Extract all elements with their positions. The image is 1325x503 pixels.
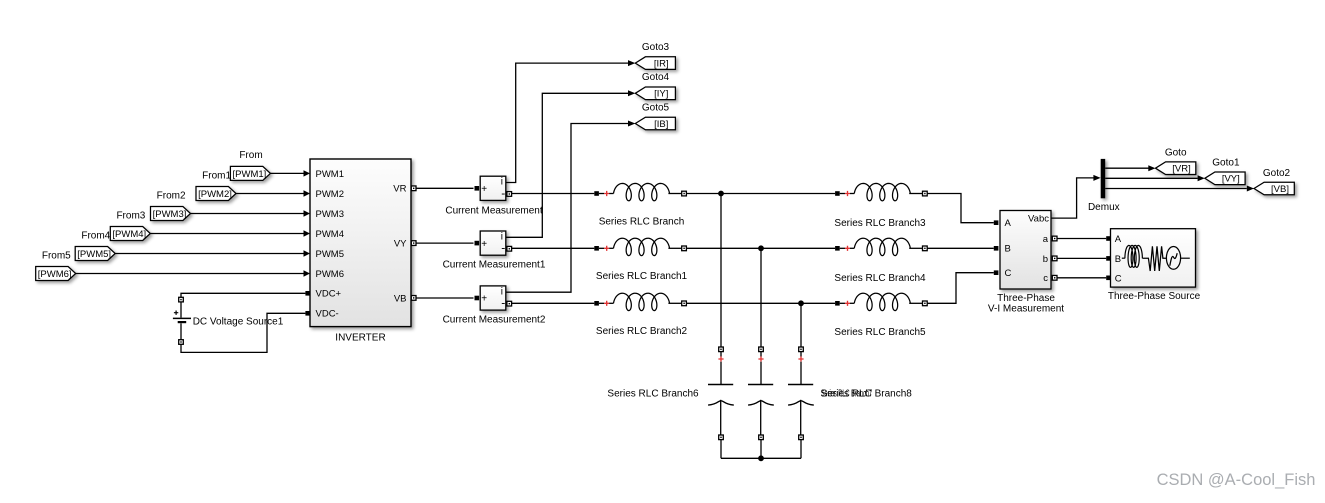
Goto tag [IY] (Goto4) bbox=[635, 87, 675, 100]
wire Current Measurement1 - output to Series RLC Branch1 bbox=[512, 247, 595, 249]
svg-text:Goto4: Goto4 bbox=[642, 72, 670, 83]
svg-text:From3: From3 bbox=[116, 210, 145, 221]
svg-text:From1: From1 bbox=[202, 170, 231, 181]
Current Measurement2 block bbox=[475, 286, 512, 310]
svg-text:Three-Phase: Three-Phase bbox=[997, 293, 1055, 304]
Series RLC Branch3 (inductor) bbox=[835, 183, 927, 200]
svg-text:[PWM2]: [PWM2] bbox=[198, 189, 232, 200]
Goto tag [VY] (Goto1) bbox=[1205, 172, 1245, 185]
svg-text:Vabc: Vabc bbox=[1028, 214, 1049, 225]
wire inverter output to Current Measurement2 bbox=[416, 297, 474, 299]
svg-text:VDC+: VDC+ bbox=[316, 289, 342, 300]
svg-text:A: A bbox=[1005, 218, 1012, 229]
svg-text:From4: From4 bbox=[81, 230, 110, 241]
svg-text:B: B bbox=[1115, 254, 1121, 265]
svg-text:Goto3: Goto3 bbox=[642, 42, 670, 53]
Series RLC Branch5 (inductor) bbox=[835, 293, 927, 310]
Three-Phase Source icon: AC source circle bbox=[1166, 247, 1180, 270]
wire Current Measurement i output to Goto3 bbox=[506, 63, 629, 182]
svg-text:Series RLC Branch5: Series RLC Branch5 bbox=[834, 327, 926, 338]
Demux block bbox=[1101, 159, 1106, 198]
wire Series RLC Branch3 to V-I input A bbox=[927, 194, 994, 223]
wire inverter output to Current Measurement1 bbox=[416, 242, 474, 244]
svg-text:Current Measurement1: Current Measurement1 bbox=[443, 260, 546, 271]
svg-text:c: c bbox=[1043, 273, 1048, 284]
wire V-I output to Three-Phase Source bbox=[1057, 238, 1106, 240]
svg-text:A: A bbox=[1115, 234, 1122, 245]
From tag [PWM4] bbox=[110, 227, 150, 241]
From tag [PWM2] bbox=[196, 187, 236, 201]
Goto tag [VR] (Goto) bbox=[1156, 162, 1196, 175]
Current Measurement block bbox=[475, 176, 512, 200]
svg-text:[VB]: [VB] bbox=[1271, 184, 1289, 195]
svg-text:V-I Measurement: V-I Measurement bbox=[988, 304, 1064, 315]
wire From tag PWM2 to INVERTER input PWM2 bbox=[236, 193, 304, 195]
svg-text:Series RLC Branch6: Series RLC Branch6 bbox=[607, 389, 699, 400]
svg-text:From5: From5 bbox=[42, 250, 71, 261]
svg-text:[PWM1]: [PWM1] bbox=[233, 169, 267, 180]
svg-text:VB: VB bbox=[394, 293, 407, 304]
Series RLC Branch (inductor) bbox=[594, 183, 686, 200]
port square V-I output bbox=[1052, 275, 1057, 280]
wire From tag PWM1 to INVERTER input PWM1 bbox=[270, 172, 303, 174]
svg-text:C: C bbox=[1115, 273, 1122, 284]
svg-text:Current Measurement: Current Measurement bbox=[445, 206, 542, 217]
Goto tag [IR] (Goto3) bbox=[635, 57, 675, 70]
port square V-I output bbox=[1052, 236, 1057, 241]
wire From tag PWM4 to INVERTER input PWM4 bbox=[150, 233, 303, 235]
svg-text:From: From bbox=[239, 150, 262, 161]
svg-text:b: b bbox=[1043, 254, 1048, 265]
wire Series RLC Branch4 to V-I input B bbox=[927, 247, 994, 249]
bottom bus wire joining capacitor branches bbox=[721, 457, 801, 459]
Series RLC Branch4 (inductor) bbox=[835, 238, 927, 255]
svg-text:Series RLC Branch3: Series RLC Branch3 bbox=[834, 218, 926, 229]
svg-text:From2: From2 bbox=[157, 190, 186, 201]
wire Series RLC Branch5 to V-I input C bbox=[927, 273, 994, 304]
Series RLC Branch7 (capacitor) bbox=[748, 347, 774, 458]
block Three-Phase Source bbox=[1111, 229, 1196, 287]
svg-text:INVERTER: INVERTER bbox=[335, 332, 385, 343]
svg-text:PWM4: PWM4 bbox=[316, 229, 345, 240]
svg-text:[IY]: [IY] bbox=[654, 89, 668, 100]
wire Current Measurement2 - output to Series RLC Branch2 bbox=[512, 302, 595, 304]
svg-text:[VY]: [VY] bbox=[1222, 174, 1240, 185]
wire Demux output to Goto tag [VB] bbox=[1105, 188, 1247, 190]
Series RLC Branch2 (inductor) bbox=[594, 293, 686, 310]
wire Series RLC Branch1 to Series RLC Branch4 bbox=[686, 247, 835, 249]
wire From tag PWM6 to INVERTER input PWM6 bbox=[76, 273, 304, 275]
port square inverter output bbox=[411, 186, 416, 191]
svg-text:PWM5: PWM5 bbox=[316, 249, 345, 260]
svg-text:Goto5: Goto5 bbox=[642, 102, 670, 113]
Series RLC Branch8 (capacitor) bbox=[788, 347, 814, 458]
svg-text:CSDN @A-Cool_Fish: CSDN @A-Cool_Fish bbox=[1157, 471, 1316, 489]
wire Current Measurement - output to Series RLC Branch bbox=[512, 193, 595, 195]
From tag [PWM5] bbox=[75, 247, 115, 261]
svg-text:[IR]: [IR] bbox=[654, 59, 669, 70]
wire DC source - terminal to VDC- bbox=[181, 313, 305, 352]
svg-text:Series RLC Branch2: Series RLC Branch2 bbox=[596, 326, 688, 337]
wire Series RLC Branch to Series RLC Branch3 bbox=[686, 193, 835, 195]
Three-Phase Source icon: resistor bbox=[1142, 246, 1166, 271]
wire Demux output to Goto tag [VR] bbox=[1105, 167, 1148, 169]
wire From tag PWM3 to INVERTER input PWM3 bbox=[191, 213, 304, 215]
svg-text:VY: VY bbox=[394, 239, 407, 250]
svg-text:Series RLC Branch: Series RLC Branch bbox=[599, 217, 685, 228]
Three-Phase Source icon: coil bbox=[1122, 257, 1125, 259]
svg-text:PWM2: PWM2 bbox=[316, 189, 345, 200]
subsystem INVERTER bbox=[310, 159, 411, 327]
From tag [PWM6] bbox=[36, 267, 76, 281]
wire junction row3 down to Series RLC Branch8 bbox=[800, 303, 802, 347]
svg-text:VDC-: VDC- bbox=[316, 309, 339, 320]
Goto tag [IB] (Goto5) bbox=[635, 117, 675, 130]
wire Demux output to Goto tag [VY] bbox=[1105, 177, 1197, 179]
svg-text:Goto1: Goto1 bbox=[1212, 157, 1240, 168]
svg-text:[PWM6]: [PWM6] bbox=[38, 269, 72, 280]
block Three-Phase V-I Measurement bbox=[1000, 211, 1051, 290]
junction node row 2 bbox=[758, 245, 764, 251]
Current Measurement1 block bbox=[475, 231, 512, 255]
wire Current Measurement2 i output to Goto5 bbox=[506, 124, 629, 293]
Series RLC Branch1 (inductor) bbox=[594, 238, 686, 255]
svg-text:C: C bbox=[1005, 268, 1012, 279]
svg-text:[IB]: [IB] bbox=[654, 119, 668, 130]
svg-text:Demux: Demux bbox=[1088, 202, 1120, 213]
svg-text:a: a bbox=[1043, 234, 1049, 245]
wire V-I output to Three-Phase Source bbox=[1057, 257, 1106, 259]
svg-text:Series RLC Branch8: Series RLC Branch8 bbox=[821, 389, 913, 400]
Goto tag [VB] (Goto2) bbox=[1254, 182, 1294, 195]
From tag [PWM3] bbox=[151, 207, 191, 221]
wire Series RLC Branch2 to Series RLC Branch5 bbox=[686, 302, 835, 304]
junction node row 1 bbox=[718, 191, 724, 197]
wire V-I output to Three-Phase Source bbox=[1057, 277, 1106, 279]
wire Vabc to Demux bbox=[1051, 178, 1094, 218]
wire From tag PWM5 to INVERTER input PWM5 bbox=[115, 253, 304, 255]
svg-text:Goto: Goto bbox=[1165, 148, 1187, 159]
port square V-I output bbox=[1052, 256, 1057, 261]
port square inverter output bbox=[411, 241, 416, 246]
svg-text:VR: VR bbox=[393, 184, 406, 195]
wire inverter output to Current Measurement bbox=[416, 187, 474, 189]
svg-text:Three-Phase Source: Three-Phase Source bbox=[1108, 291, 1201, 302]
svg-text:Series RLC Branch1: Series RLC Branch1 bbox=[596, 271, 688, 282]
svg-text:DC Voltage Source1: DC Voltage Source1 bbox=[193, 317, 284, 328]
port square VDC+ input bbox=[305, 291, 310, 296]
From tag [PWM1] bbox=[230, 166, 270, 180]
svg-text:Goto2: Goto2 bbox=[1263, 168, 1291, 179]
svg-text:[PWM3]: [PWM3] bbox=[153, 209, 187, 220]
wire Current Measurement1 i output to Goto4 bbox=[506, 93, 629, 237]
wire DC source + terminal to VDC+ bbox=[181, 293, 305, 297]
svg-text:[VR]: [VR] bbox=[1172, 164, 1190, 175]
Series RLC Branch6 (capacitor) bbox=[708, 347, 734, 458]
wire junction row1 down to Series RLC Branch6 bbox=[720, 194, 722, 348]
wire junction row2 down to Series RLC Branch7 bbox=[760, 248, 762, 347]
svg-text:PWM6: PWM6 bbox=[316, 269, 345, 280]
svg-text:[PWM4]: [PWM4] bbox=[112, 229, 146, 240]
svg-text:B: B bbox=[1005, 244, 1011, 255]
svg-text:[PWM5]: [PWM5] bbox=[77, 249, 111, 260]
junction node bottom bus bbox=[758, 455, 764, 461]
svg-text:Series RLC Branch4: Series RLC Branch4 bbox=[834, 273, 926, 284]
svg-text:PWM1: PWM1 bbox=[316, 169, 345, 180]
port square inverter output bbox=[411, 296, 416, 301]
svg-text:Current Measurement2: Current Measurement2 bbox=[443, 315, 546, 326]
junction node row 3 bbox=[798, 300, 804, 306]
DC Voltage Source1 battery symbol bbox=[173, 297, 191, 344]
port square VDC- input bbox=[305, 311, 310, 316]
svg-text:PWM3: PWM3 bbox=[316, 209, 345, 220]
